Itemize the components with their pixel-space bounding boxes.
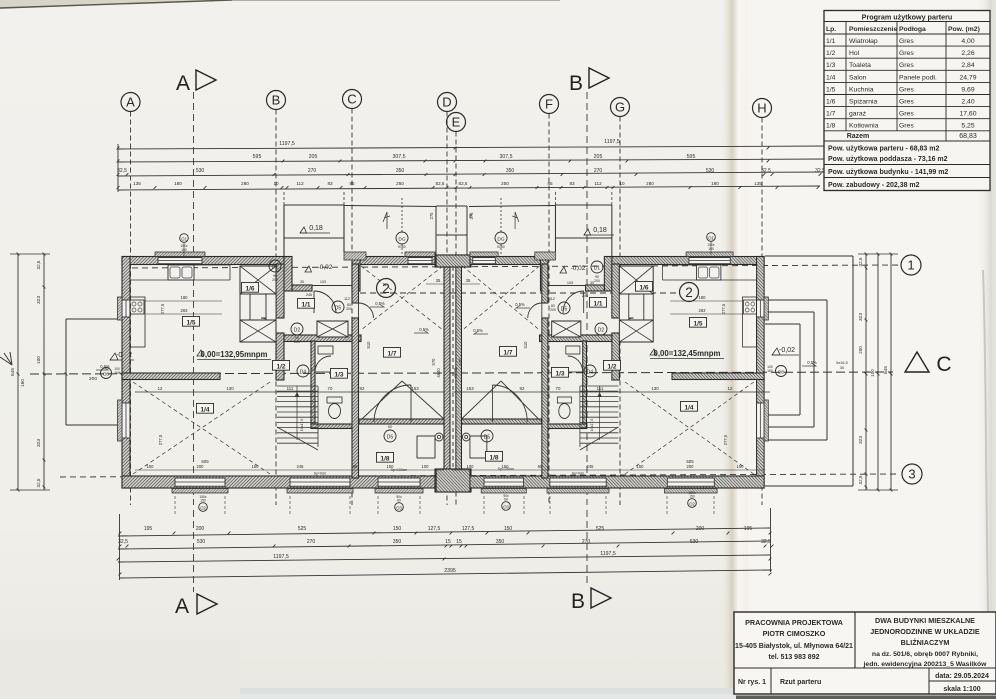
svg-text:92: 92 bbox=[520, 386, 525, 391]
eave line over entry bbox=[344, 206, 436, 207]
svg-text:200: 200 bbox=[687, 464, 695, 469]
entry level -0.02 right bbox=[560, 265, 586, 273]
svg-text:5,25: 5,25 bbox=[961, 123, 974, 130]
svg-text:180: 180 bbox=[711, 181, 719, 186]
room label 1/5 bbox=[689, 317, 706, 327]
svg-text:46,40: 46,40 bbox=[453, 367, 458, 378]
left wall window 2 (salon door) bbox=[757, 403, 764, 438]
svg-text:92: 92 bbox=[360, 386, 365, 391]
svg-text:85: 85 bbox=[349, 181, 355, 186]
svg-text:Sp=0cm: Sp=0cm bbox=[314, 472, 327, 476]
svg-text:0,5%: 0,5% bbox=[473, 328, 483, 333]
svg-text:153: 153 bbox=[411, 386, 419, 391]
top dimension row 1 bbox=[117, 139, 828, 149]
svg-text:3: 3 bbox=[908, 467, 915, 482]
svg-text:D1: D1 bbox=[272, 265, 279, 271]
svg-text:82,5: 82,5 bbox=[436, 181, 445, 186]
svg-text:130: 130 bbox=[651, 386, 659, 391]
section mark A bottom bbox=[175, 510, 217, 618]
svg-text:530: 530 bbox=[196, 168, 205, 174]
svg-text:200: 200 bbox=[594, 279, 600, 283]
svg-text:505: 505 bbox=[686, 459, 694, 464]
svg-text:Spiżarnia: Spiżarnia bbox=[849, 99, 878, 106]
recess dims right bbox=[549, 281, 594, 301]
svg-text:4,00: 4,00 bbox=[961, 38, 974, 45]
svg-text:1/3: 1/3 bbox=[555, 370, 564, 377]
svg-text:150: 150 bbox=[637, 464, 645, 469]
window circle O2 left bbox=[199, 495, 208, 511]
svg-text:127,5: 127,5 bbox=[462, 526, 475, 532]
wall above hol/toilet horizontal bbox=[284, 335, 361, 342]
D8 circle left bbox=[101, 367, 120, 379]
bottom wall bbox=[461, 476, 764, 488]
party wall top cap bbox=[435, 255, 471, 267]
svg-text:323: 323 bbox=[36, 439, 42, 447]
window circle O1 left bbox=[180, 234, 189, 256]
top wall kitchen window sill bbox=[686, 252, 733, 257]
svg-text:2395: 2395 bbox=[444, 568, 456, 574]
svg-text:200: 200 bbox=[197, 464, 205, 469]
svg-text:O2: O2 bbox=[689, 501, 695, 506]
top dimension row 4 bbox=[117, 181, 820, 190]
svg-text:103: 103 bbox=[320, 280, 326, 284]
svg-text:270: 270 bbox=[308, 168, 317, 174]
svg-text:245: 245 bbox=[587, 464, 595, 469]
svg-text:1/8: 1/8 bbox=[489, 454, 498, 461]
porch column slab bbox=[535, 252, 556, 260]
cut-off next table row at page bottom bbox=[736, 696, 996, 699]
svg-text:1197,5: 1197,5 bbox=[273, 554, 289, 560]
svg-text:277,5: 277,5 bbox=[160, 303, 165, 314]
svg-text:30: 30 bbox=[840, 366, 844, 370]
svg-text:350: 350 bbox=[393, 539, 402, 545]
left edge arrow mark bbox=[0, 352, 12, 365]
entry level -0.02 left bbox=[305, 264, 333, 272]
top dim row end terminators bbox=[117, 144, 119, 192]
garage ceiling diagonals bbox=[462, 266, 539, 330]
left dimension column bbox=[10, 253, 50, 492]
svg-text:1/3: 1/3 bbox=[826, 62, 836, 69]
bottom wall opening salon door bbox=[175, 478, 225, 487]
svg-text:32,5: 32,5 bbox=[858, 257, 863, 266]
kitchen counter top bbox=[130, 279, 230, 281]
svg-text:200: 200 bbox=[550, 308, 556, 312]
svg-text:O2: O2 bbox=[200, 505, 206, 510]
wall kitchen/hall vertical bbox=[612, 264, 620, 318]
stairs bbox=[580, 385, 619, 387]
svg-text:1/8: 1/8 bbox=[380, 455, 389, 462]
garage west wall bbox=[352, 264, 359, 303]
svg-text:307,5: 307,5 bbox=[500, 154, 513, 160]
right terrace level mark bbox=[772, 347, 817, 366]
bottom dim row end terminators bbox=[120, 508, 771, 580]
room label 1/3 bbox=[551, 367, 568, 377]
svg-text:250: 250 bbox=[396, 181, 404, 186]
room label 1/8 bbox=[376, 452, 393, 462]
svg-text:277,5: 277,5 bbox=[158, 434, 163, 445]
pump circle bbox=[462, 433, 470, 441]
bottom scanner edge band bbox=[0, 688, 996, 699]
washbasin bbox=[566, 346, 580, 354]
party wall left leaf bbox=[444, 265, 450, 470]
toilet bbox=[327, 397, 342, 403]
svg-text:1/1: 1/1 bbox=[593, 300, 602, 307]
room label 1/2 bbox=[603, 360, 620, 370]
svg-text:60: 60 bbox=[397, 499, 401, 503]
kitchen dim lines bbox=[145, 300, 222, 302]
entry door D1 arc bbox=[563, 291, 584, 313]
svg-text:1/7: 1/7 bbox=[387, 350, 396, 357]
svg-text:D1: D1 bbox=[594, 266, 601, 272]
svg-text:1/4: 1/4 bbox=[826, 74, 836, 81]
svg-text:245: 245 bbox=[306, 293, 312, 297]
svg-text:150: 150 bbox=[200, 499, 206, 503]
svg-text:Pow. zabudowy - 202,38 m2: Pow. zabudowy - 202,38 m2 bbox=[828, 182, 920, 189]
svg-text:D2: D2 bbox=[294, 328, 301, 334]
axis F bbox=[540, 95, 559, 506]
entry recess side wall left bbox=[284, 257, 292, 292]
level text left bbox=[197, 350, 271, 360]
stair labels bbox=[300, 419, 594, 432]
svg-text:205: 205 bbox=[594, 154, 603, 160]
porch column slab bbox=[344, 252, 366, 260]
top wall window kitchen bbox=[689, 257, 730, 264]
bottom wall kotlownia window bbox=[484, 478, 523, 487]
entry recess back wall bbox=[292, 285, 312, 291]
level text right bbox=[650, 349, 724, 359]
right page edge shading bbox=[978, 0, 996, 699]
svg-text:Gres: Gres bbox=[899, 62, 914, 69]
right dimension column bbox=[858, 253, 898, 492]
svg-text:307,5: 307,5 bbox=[393, 154, 406, 160]
svg-text:323: 323 bbox=[858, 313, 864, 321]
svg-text:70: 70 bbox=[328, 386, 333, 391]
door circle D4 right bbox=[584, 365, 596, 377]
chimney flue box 2 bbox=[619, 320, 653, 342]
svg-text:O3: O3 bbox=[503, 504, 509, 509]
kitchen-salon wall bbox=[672, 373, 764, 380]
axis C bbox=[343, 90, 362, 506]
boiler bbox=[417, 436, 435, 458]
svg-text:O3: O3 bbox=[396, 505, 402, 510]
svg-text:112: 112 bbox=[549, 297, 555, 301]
svg-text:1/8: 1/8 bbox=[826, 123, 836, 130]
top dimension row 2 bbox=[117, 154, 828, 162]
svg-text:1197,5: 1197,5 bbox=[604, 139, 620, 145]
svg-text:280: 280 bbox=[241, 181, 249, 186]
svg-text:BLIŹNIACZYM: BLIŹNIACZYM bbox=[901, 638, 950, 647]
svg-text:150: 150 bbox=[689, 495, 695, 499]
svg-text:D5: D5 bbox=[335, 306, 342, 312]
top wall middle segment bbox=[461, 257, 540, 265]
stairs arrow line bbox=[296, 386, 298, 440]
wall toilet/stairs bottom bbox=[548, 424, 587, 429]
left outer wall bbox=[757, 257, 765, 489]
svg-text:C: C bbox=[347, 92, 356, 107]
svg-text:-0,02: -0,02 bbox=[779, 347, 795, 354]
door circle D2 right bbox=[595, 323, 607, 335]
kitchen counter top bbox=[663, 279, 757, 281]
kitchen dim labels bbox=[181, 295, 707, 313]
svg-text:280: 280 bbox=[646, 181, 654, 186]
room label 1/7 bbox=[383, 347, 400, 357]
svg-text:200: 200 bbox=[294, 340, 300, 344]
entry recess back wall bbox=[586, 285, 605, 291]
bottom dimension row 3 bbox=[117, 551, 772, 562]
svg-text:D5: D5 bbox=[387, 435, 394, 441]
svg-text:D5: D5 bbox=[484, 435, 491, 441]
svg-text:595: 595 bbox=[253, 154, 262, 160]
svg-text:245: 245 bbox=[582, 294, 588, 298]
svg-text:Hol: Hol bbox=[849, 50, 860, 57]
door D5 garage arc bbox=[528, 303, 542, 318]
svg-text:D5: D5 bbox=[561, 307, 568, 313]
svg-text:1/6: 1/6 bbox=[826, 99, 836, 106]
svg-text:200: 200 bbox=[89, 376, 97, 382]
boiler bbox=[470, 436, 487, 458]
svg-text:10: 10 bbox=[619, 181, 625, 186]
svg-text:12: 12 bbox=[728, 386, 733, 391]
central chimney stack above party wall bbox=[436, 206, 473, 255]
room label 1/2 bbox=[272, 360, 289, 370]
svg-text:D4: D4 bbox=[300, 370, 307, 376]
door circle D5 left bbox=[332, 301, 352, 313]
kotlownia top wall bbox=[461, 419, 541, 424]
svg-text:350: 350 bbox=[506, 168, 515, 174]
svg-text:O1: O1 bbox=[181, 236, 187, 241]
svg-text:Salon: Salon bbox=[849, 74, 867, 81]
svg-text:250: 250 bbox=[501, 181, 509, 186]
top wall left segment bbox=[612, 257, 764, 265]
recess dims left bbox=[300, 280, 350, 301]
svg-text:111: 111 bbox=[287, 386, 294, 391]
svg-text:530: 530 bbox=[690, 539, 699, 545]
svg-text:PIOTR CIMOSZKO: PIOTR CIMOSZKO bbox=[763, 629, 826, 638]
axis H bbox=[753, 99, 772, 506]
svg-text:85: 85 bbox=[547, 181, 553, 186]
shaft box hall bbox=[317, 321, 348, 337]
svg-text:0,5%: 0,5% bbox=[375, 301, 385, 306]
hob bbox=[743, 300, 756, 314]
shaft box hall bbox=[552, 321, 581, 337]
svg-text:32,5: 32,5 bbox=[761, 168, 771, 174]
salon dashed ceiling line bbox=[625, 382, 754, 474]
svg-text:0,18: 0,18 bbox=[593, 227, 607, 234]
svg-text:32,5: 32,5 bbox=[761, 539, 771, 545]
svg-text:200: 200 bbox=[858, 346, 863, 354]
chimney flue box 1 bbox=[619, 266, 653, 294]
svg-text:Pow. użytkowa poddasza - 73,16: Pow. użytkowa poddasza - 73,16 m2 bbox=[828, 156, 948, 163]
garage gable line bbox=[362, 381, 402, 419]
axis G bbox=[611, 98, 630, 506]
svg-text:195: 195 bbox=[144, 526, 153, 532]
svg-text:B: B bbox=[571, 590, 585, 613]
axis 2 markers bbox=[360, 279, 699, 302]
left terrace level mark bbox=[96, 352, 134, 370]
chimney flue box 1 bbox=[240, 266, 276, 294]
svg-text:B: B bbox=[569, 72, 583, 95]
svg-text:180: 180 bbox=[699, 295, 707, 300]
svg-text:0,00=132,95mnpm: 0,00=132,95mnpm bbox=[201, 350, 268, 359]
window circle O2 right bbox=[688, 491, 697, 507]
svg-text:10: 10 bbox=[273, 181, 279, 186]
svg-text:-0,02: -0,02 bbox=[318, 264, 333, 271]
door D2 arc bbox=[619, 318, 633, 333]
svg-text:60: 60 bbox=[504, 498, 508, 502]
svg-text:5x16,5: 5x16,5 bbox=[836, 361, 847, 365]
svg-text:Rzut parteru: Rzut parteru bbox=[780, 679, 821, 686]
svg-text:245: 245 bbox=[297, 464, 305, 469]
svg-text:jedn. ewidencyjna 200213_5 Was: jedn. ewidencyjna 200213_5 Wasilków bbox=[863, 661, 988, 668]
svg-text:130: 130 bbox=[226, 386, 234, 391]
svg-text:1/6: 1/6 bbox=[245, 285, 254, 292]
svg-text:510: 510 bbox=[366, 341, 371, 349]
section mark A top bbox=[176, 70, 216, 505]
chimney box small walls bbox=[240, 294, 250, 320]
left wall window 1 bbox=[757, 300, 764, 317]
svg-text:135: 135 bbox=[754, 181, 762, 186]
svg-text:65: 65 bbox=[353, 464, 358, 469]
svg-text:0,5%: 0,5% bbox=[807, 360, 817, 365]
svg-text:83: 83 bbox=[327, 181, 333, 186]
stairs arrow line bbox=[599, 386, 601, 440]
svg-text:275: 275 bbox=[469, 212, 474, 220]
door circle D5 right bbox=[550, 302, 570, 314]
garage west wall bbox=[542, 264, 548, 303]
drain circle DG left bbox=[396, 198, 408, 254]
svg-text:32,5: 32,5 bbox=[36, 478, 41, 487]
svg-text:Gres: Gres bbox=[899, 50, 914, 57]
svg-text:1/7: 1/7 bbox=[826, 111, 836, 118]
svg-text:180: 180 bbox=[181, 295, 189, 300]
svg-text:277,5: 277,5 bbox=[721, 303, 726, 314]
room label 1/7 bbox=[499, 346, 516, 356]
section mark B top bbox=[569, 68, 609, 505]
svg-text:na dz. 501/6, obręb 0007 Rybni: na dz. 501/6, obręb 0007 Rybniki, bbox=[872, 651, 978, 658]
svg-text:Panele podł.: Panele podł. bbox=[899, 74, 937, 81]
kotlownia top wall bbox=[359, 419, 444, 424]
door D2 arc bbox=[261, 318, 276, 333]
svg-text:350: 350 bbox=[396, 168, 405, 174]
vertical fold crease bbox=[720, 0, 754, 699]
svg-text:D8: D8 bbox=[778, 370, 784, 375]
interior dims row salon right bbox=[452, 459, 765, 470]
kitchen dim lines bbox=[670, 300, 742, 302]
svg-text:270: 270 bbox=[307, 539, 316, 545]
bottom wall opening 2 bbox=[550, 478, 606, 487]
brighter paper right of fold bbox=[748, 0, 996, 699]
svg-text:H: H bbox=[757, 101, 766, 116]
right terrace steps bbox=[765, 256, 853, 486]
svg-text:0,5%: 0,5% bbox=[419, 327, 429, 332]
svg-text:Toaleta: Toaleta bbox=[849, 62, 871, 69]
svg-text:263: 263 bbox=[699, 308, 707, 313]
roof slope arrow bbox=[512, 212, 519, 229]
svg-text:323: 323 bbox=[36, 296, 42, 304]
svg-text:DWA BUDYNKI MIESZKALNE: DWA BUDYNKI MIESZKALNE bbox=[875, 616, 975, 625]
axis B bbox=[267, 91, 286, 506]
svg-text:D4: D4 bbox=[587, 370, 594, 376]
svg-text:A: A bbox=[175, 595, 189, 618]
svg-text:82,5: 82,5 bbox=[459, 181, 468, 186]
svg-text:505: 505 bbox=[201, 459, 209, 464]
svg-text:180: 180 bbox=[174, 181, 182, 186]
eave line over entry bbox=[469, 206, 555, 207]
garage door sill labels bbox=[314, 467, 585, 476]
svg-text:E: E bbox=[452, 115, 461, 130]
svg-text:15-405 Białystok, ul. Młynowa: 15-405 Białystok, ul. Młynowa 64/21 bbox=[735, 643, 853, 650]
right housing unit geometry (mirrored) bbox=[436, 192, 768, 493]
svg-text:160: 160 bbox=[767, 369, 773, 373]
svg-text:O1: O1 bbox=[708, 235, 714, 240]
svg-text:160: 160 bbox=[20, 379, 25, 387]
svg-text:200: 200 bbox=[196, 526, 205, 532]
svg-text:Kuchnia: Kuchnia bbox=[849, 86, 874, 93]
svg-text:Gres: Gres bbox=[899, 111, 914, 118]
svg-text:270: 270 bbox=[594, 168, 603, 174]
pump circle bbox=[435, 433, 443, 441]
svg-text:205: 205 bbox=[309, 154, 318, 160]
svg-text:DG: DG bbox=[497, 237, 504, 243]
door D4 arc bbox=[568, 356, 583, 372]
svg-text:Lp.: Lp. bbox=[826, 26, 836, 33]
chimney flue box 2 bbox=[240, 320, 276, 342]
party wall top dims bbox=[426, 212, 480, 284]
svg-text:68,83: 68,83 bbox=[959, 133, 977, 140]
svg-text:32,5: 32,5 bbox=[117, 168, 127, 174]
room label 1/6 bbox=[635, 281, 652, 291]
axis 3 bbox=[60, 464, 922, 484]
svg-text:1/2: 1/2 bbox=[607, 363, 616, 370]
svg-text:4640: 4640 bbox=[436, 368, 441, 378]
svg-text:15: 15 bbox=[456, 539, 462, 545]
door circle D5 kotlownia right bbox=[481, 430, 493, 442]
svg-text:Gres: Gres bbox=[899, 86, 914, 93]
wall above hol/toilet horizontal bbox=[539, 335, 611, 342]
svg-text:645: 645 bbox=[883, 366, 889, 374]
svg-text:Kotłownia: Kotłownia bbox=[849, 123, 879, 130]
svg-text:Pomieszczenie: Pomieszczenie bbox=[849, 26, 898, 33]
svg-text:35: 35 bbox=[436, 278, 441, 283]
room schedule table bbox=[824, 11, 990, 191]
svg-text:Sp=0cm: Sp=0cm bbox=[572, 472, 585, 476]
svg-text:16x17,6: 16x17,6 bbox=[590, 419, 594, 432]
svg-text:570: 570 bbox=[431, 358, 436, 366]
svg-text:32,5: 32,5 bbox=[118, 539, 128, 545]
roof slope arrow bbox=[383, 212, 390, 229]
svg-text:Sp=100cm: Sp=100cm bbox=[498, 467, 514, 471]
svg-text:1/5: 1/5 bbox=[186, 319, 195, 326]
porch outline bbox=[283, 205, 285, 256]
svg-text:277,5: 277,5 bbox=[723, 434, 728, 445]
door circle D5 kotlownia left bbox=[384, 425, 396, 442]
svg-text:G: G bbox=[615, 100, 625, 115]
svg-text:112: 112 bbox=[594, 181, 602, 186]
svg-text:83: 83 bbox=[569, 181, 575, 186]
svg-text:1/2: 1/2 bbox=[276, 363, 285, 370]
kitchen counter left bbox=[742, 297, 756, 347]
entry door D1 arc bbox=[314, 291, 336, 313]
porch level 0.18 right bbox=[584, 227, 614, 235]
window circle O3 left bbox=[395, 495, 404, 511]
svg-text:111: 111 bbox=[597, 386, 604, 391]
entry recess side wall right bbox=[540, 257, 548, 292]
svg-text:1/6: 1/6 bbox=[639, 284, 648, 291]
svg-text:525: 525 bbox=[596, 526, 605, 532]
svg-text:275: 275 bbox=[429, 212, 434, 220]
door D5 garage arc bbox=[359, 303, 374, 318]
svg-text:17,60: 17,60 bbox=[959, 111, 976, 118]
